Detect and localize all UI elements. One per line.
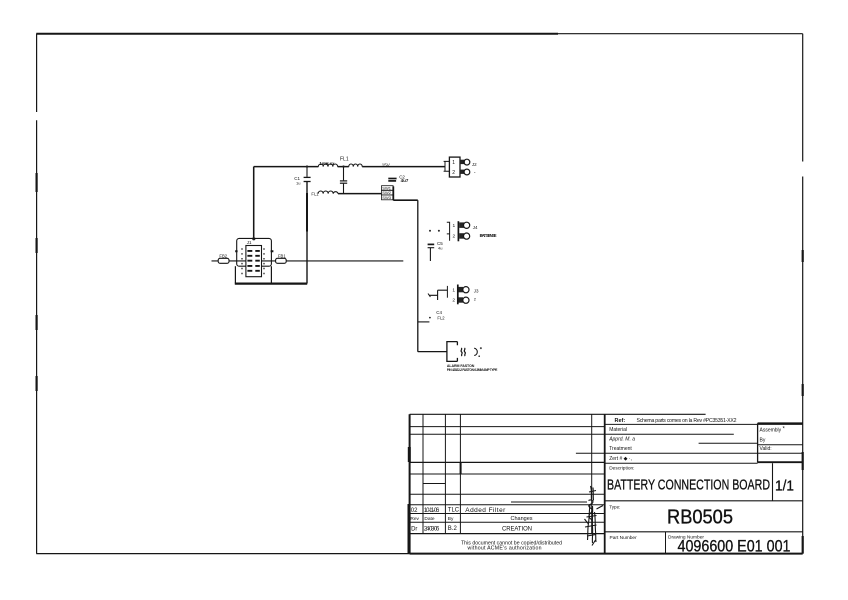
apprd fill line y443.2 xyxy=(699,442,758,444)
svg-text:Material: Material xyxy=(609,427,627,433)
connector J4 left pin bar xyxy=(447,222,450,241)
connector J2 left pin bar xyxy=(444,161,450,171)
svg-text:J1: J1 xyxy=(247,240,252,245)
wire J1 bottom loop left xyxy=(234,266,236,283)
svg-text:Zert # ◆ ·,: Zert # ◆ ·, xyxy=(609,456,632,462)
inductor FL1 winding A xyxy=(318,164,337,167)
wire mid net through J1 xyxy=(212,260,404,262)
svg-text:B.2: B.2 xyxy=(448,526,458,532)
svg-text:J2: J2 xyxy=(472,162,477,167)
svg-text:2: 2 xyxy=(453,234,456,240)
capacitor C5 xyxy=(428,244,435,261)
svg-text:Apprd. M. a: Apprd. M. a xyxy=(608,437,635,443)
node J1 top junction xyxy=(252,237,255,240)
connector J4 body bar xyxy=(457,221,459,241)
border frame xyxy=(36,34,802,554)
svg-text:24-03-06: 24-03-06 xyxy=(424,526,440,532)
revision table row line y504.8 xyxy=(410,504,605,506)
revision table row line y426.6 xyxy=(410,426,605,428)
connector J1 outer box xyxy=(237,238,272,266)
wire J1 bottom loop right xyxy=(270,266,272,283)
svg-text:CREATION: CREATION xyxy=(502,527,532,533)
wire C1 lead thick section xyxy=(306,193,308,232)
svg-text:4096600 E01 001: 4096600 E01 001 xyxy=(678,537,791,555)
svg-text:By: By xyxy=(760,438,766,444)
svg-text:without ACME's authorization: without ACME's authorization xyxy=(468,546,542,552)
svg-text:Part Number: Part Number xyxy=(610,535,638,541)
capacitor C1 xyxy=(304,167,311,284)
svg-text:2: 2 xyxy=(452,298,455,304)
revision table row line y474 xyxy=(410,473,605,475)
title block top border xyxy=(410,413,706,415)
wire left vertical to J1 xyxy=(253,167,255,239)
connector J4 terminal 1 xyxy=(459,222,464,228)
ferrite bead FB1 right xyxy=(276,258,287,263)
signature scribble xyxy=(585,486,604,546)
connector J3 left pin bar xyxy=(446,286,448,298)
svg-text:Rev: Rev xyxy=(410,516,419,522)
approval block left edge x757.6 xyxy=(757,423,759,462)
svg-text:P/N 42822-2 FASTON 6.3MM AMP T: P/N 42822-2 FASTON 6.3MM AMP TYPE xyxy=(447,368,498,372)
svg-text:RB0505: RB0505 xyxy=(667,507,733,529)
svg-text:Dr: Dr xyxy=(411,526,417,532)
part number divider x665.5 xyxy=(665,532,667,554)
sheet cell divider x772.5 xyxy=(772,463,774,501)
revision table partial row line y483.5 xyxy=(423,483,445,485)
net label stack SW1/SW2/SW3 xyxy=(382,186,394,201)
dotted wire to J4 xyxy=(429,230,440,232)
capacitor C3 under choke xyxy=(340,167,347,194)
wire J1 bottom bus xyxy=(235,283,307,285)
node C1 top junction xyxy=(306,165,308,167)
connector J1 pin number marks xyxy=(241,248,243,274)
partial line y502 xyxy=(511,501,587,503)
connector J3 terminal 1 xyxy=(458,287,463,292)
svg-text:J4: J4 xyxy=(473,225,478,230)
connector J2 terminal 2 xyxy=(460,170,465,174)
svg-text:Added Filter: Added Filter xyxy=(465,507,506,514)
svg-text:1: 1 xyxy=(452,160,455,166)
svg-text:SW3: SW3 xyxy=(382,195,391,200)
wire from stack to right bus xyxy=(393,199,418,201)
connector J5 dot xyxy=(478,355,480,357)
wire top net from J1 to J2 xyxy=(254,166,445,168)
svg-text:Treatment: Treatment xyxy=(609,446,632,452)
treatment row line y453.3 xyxy=(576,452,803,454)
svg-text:By: By xyxy=(448,516,454,522)
description bottom line y500.8 xyxy=(605,500,803,502)
svg-text:15V,: 15V, xyxy=(382,162,391,167)
revision table row line y434.2 xyxy=(410,433,734,435)
revision table column line x591.7 xyxy=(591,414,593,533)
svg-text:Valid:: Valid: xyxy=(760,446,772,452)
approval block top y423.3 xyxy=(758,422,803,424)
svg-text:Date: Date xyxy=(424,516,434,522)
capacitor C2 symbol xyxy=(388,179,396,181)
svg-text:FL1: FL1 xyxy=(340,157,349,163)
connector J2 terminal 1 xyxy=(460,160,465,164)
svg-text:BAT SENSE: BAT SENSE xyxy=(480,233,497,238)
connector J3 body bar xyxy=(457,285,459,305)
connector J5 terminal arc xyxy=(474,348,477,355)
svg-text:02: 02 xyxy=(411,508,418,514)
wire J3 hook xyxy=(429,290,447,300)
revision table row line y513.5 xyxy=(410,513,605,515)
svg-text:1u: 1u xyxy=(296,181,300,186)
revision table column line x460.4 xyxy=(459,414,461,533)
svg-text:1: 1 xyxy=(453,223,456,229)
svg-text:4u7: 4u7 xyxy=(401,178,409,183)
revision table row line y533.6 xyxy=(410,533,605,535)
svg-text:Changes: Changes xyxy=(511,516,533,522)
connector J1 inner header xyxy=(246,246,262,277)
title block outer left border xyxy=(409,414,411,553)
connector J5 bracket xyxy=(447,342,458,362)
svg-text:Description:: Description: xyxy=(609,466,634,472)
node C2 top junction xyxy=(342,165,344,167)
svg-text:BATTERY CONNECTION BOARD: BATTERY CONNECTION BOARD xyxy=(607,477,770,494)
revision table row line y462.4 xyxy=(410,461,605,463)
svg-text:Type:: Type: xyxy=(609,505,620,510)
connector J5 plus mark xyxy=(480,347,482,349)
revision table column line x423 xyxy=(422,414,424,533)
svg-text:10-11-06: 10-11-06 xyxy=(424,508,440,514)
svg-text:J3: J3 xyxy=(474,289,479,294)
type row bottom line y531.8 xyxy=(605,531,803,533)
svg-text:Assembly: Assembly xyxy=(760,428,782,434)
wire stub at y322 xyxy=(418,321,430,323)
connector J5 contact squiggles xyxy=(461,348,465,356)
svg-text:TLC: TLC xyxy=(448,508,460,514)
inductor FL1 winding C xyxy=(318,191,338,194)
svg-text:FB2: FB2 xyxy=(219,253,227,258)
svg-text:FB1: FB1 xyxy=(278,253,286,258)
svg-text:1/1: 1/1 xyxy=(775,478,794,495)
connector J2 body xyxy=(449,157,460,177)
title block center divider x604.7 xyxy=(604,414,606,553)
node dot near C4 xyxy=(429,317,431,319)
svg-text:Schema parts comes on la Rev #: Schema parts comes on la Rev #PC35351-XX… xyxy=(637,418,737,424)
approval block bottom y462.2 xyxy=(758,461,803,463)
connector J1 pin rows xyxy=(247,251,259,271)
svg-text:4u: 4u xyxy=(438,245,442,250)
approval block line y444.8 xyxy=(758,444,803,446)
svg-text:FL2: FL2 xyxy=(437,315,445,320)
svg-text:Ref:: Ref: xyxy=(615,418,626,424)
ferrite bead FB2 left xyxy=(218,258,229,263)
wire to J5 xyxy=(418,351,447,353)
ref row bottom line y424.4 xyxy=(605,423,803,425)
connector J3 terminal 2 xyxy=(458,297,463,302)
revision table column line x445.4 xyxy=(444,414,446,533)
svg-text:2: 2 xyxy=(452,170,455,176)
wire bottom winding net xyxy=(338,193,382,195)
J3 hook tick xyxy=(428,294,430,298)
connector J4 terminal 2 xyxy=(459,233,464,239)
svg-text:1: 1 xyxy=(452,288,455,294)
wire right vertical bus xyxy=(417,200,419,352)
row line y463.2 xyxy=(605,462,758,464)
svg-text:FL1: FL1 xyxy=(311,191,319,196)
svg-text:1mH xx: 1mH xx xyxy=(320,161,336,166)
revision table row line y494.3 xyxy=(410,493,605,495)
revision table row line y522.2 xyxy=(410,521,605,523)
inductor FL1 winding B xyxy=(349,164,362,167)
connector J1 side ticks xyxy=(235,250,273,252)
